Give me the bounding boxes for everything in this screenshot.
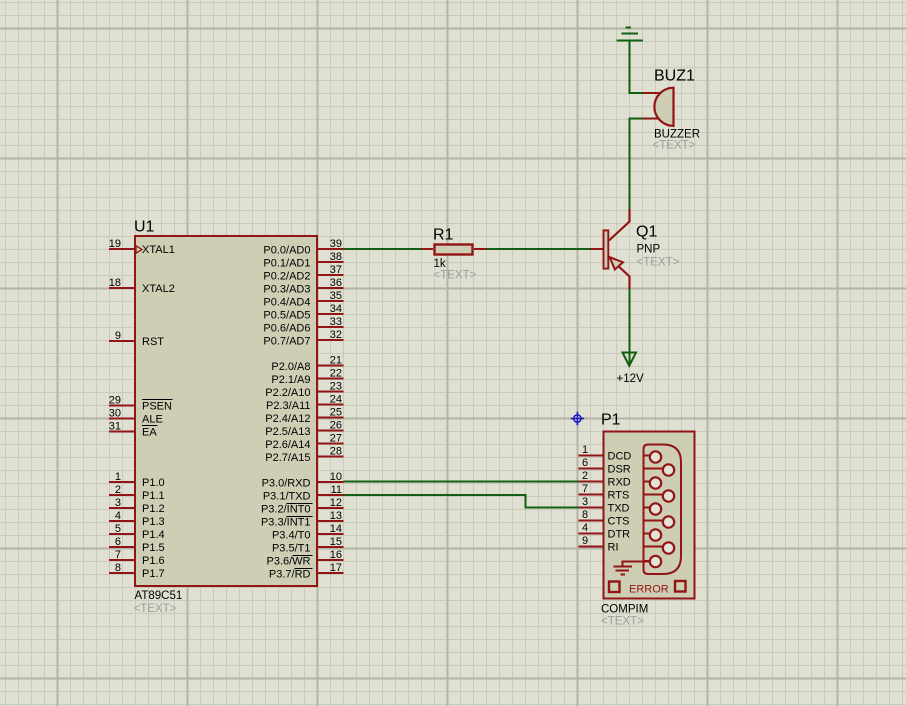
svg-text:P0.7/AD7: P0.7/AD7: [263, 336, 310, 348]
svg-text:ALE: ALE: [142, 414, 163, 426]
svg-text:P2.5/A13: P2.5/A13: [265, 426, 310, 438]
svg-text:3: 3: [582, 496, 588, 508]
svg-text:<TEXT>: <TEXT>: [637, 257, 680, 269]
svg-text:9: 9: [582, 535, 588, 547]
svg-text:P2.3/A11: P2.3/A11: [266, 400, 310, 412]
svg-text:P2.4/A12: P2.4/A12: [265, 413, 310, 425]
svg-text:BUZ1: BUZ1: [654, 68, 695, 85]
svg-text:R1: R1: [433, 227, 454, 244]
svg-text:RST: RST: [142, 336, 164, 348]
svg-text:P3.2/INT0: P3.2/INT0: [261, 504, 311, 516]
svg-text:P1.6: P1.6: [142, 555, 165, 567]
svg-text:7: 7: [582, 483, 588, 495]
svg-text:P1.2: P1.2: [142, 503, 165, 515]
svg-text:P1.5: P1.5: [142, 542, 165, 554]
svg-text:P3.7/RD: P3.7/RD: [269, 569, 311, 581]
svg-text:P0.2/AD2: P0.2/AD2: [263, 271, 310, 283]
svg-text:P2.2/A10: P2.2/A10: [265, 387, 310, 399]
svg-text:+12V: +12V: [617, 373, 645, 385]
svg-text:U1: U1: [134, 219, 155, 236]
svg-text:P2.0/A8: P2.0/A8: [271, 361, 310, 373]
svg-text:P0.6/AD6: P0.6/AD6: [263, 323, 310, 335]
svg-text:P1.3: P1.3: [142, 516, 165, 528]
svg-text:P3.6/WR: P3.6/WR: [266, 556, 310, 568]
svg-text:CTS: CTS: [608, 516, 630, 528]
svg-text:1: 1: [582, 444, 588, 456]
svg-text:P3.0/RXD: P3.0/RXD: [262, 478, 311, 490]
svg-text:P2.7/A15: P2.7/A15: [265, 452, 310, 464]
svg-text:XTAL1: XTAL1: [142, 244, 175, 256]
svg-text:P1.7: P1.7: [142, 568, 165, 580]
svg-text:<TEXT>: <TEXT>: [134, 603, 177, 615]
svg-text:RI: RI: [608, 542, 619, 554]
svg-text:4: 4: [582, 522, 588, 534]
svg-text:P0.5/AD5: P0.5/AD5: [263, 310, 310, 322]
svg-text:P2.6/A14: P2.6/A14: [265, 439, 310, 451]
svg-text:DTR: DTR: [608, 529, 631, 541]
svg-text:P1: P1: [601, 412, 621, 429]
svg-text:P2.1/A9: P2.1/A9: [271, 374, 310, 386]
svg-text:P3.5/T1: P3.5/T1: [272, 543, 311, 555]
svg-text:XTAL2: XTAL2: [142, 283, 175, 295]
svg-text:RTS: RTS: [608, 490, 630, 502]
svg-text:8: 8: [582, 509, 588, 521]
svg-text:P1.0: P1.0: [142, 477, 165, 489]
svg-text:TXD: TXD: [608, 503, 630, 515]
svg-text:DSR: DSR: [608, 464, 631, 476]
svg-text:P0.1/AD1: P0.1/AD1: [263, 258, 310, 270]
svg-text:ERROR: ERROR: [629, 584, 669, 596]
svg-text:PNP: PNP: [637, 244, 661, 256]
svg-text:P1.1: P1.1: [142, 490, 165, 502]
svg-text:P0.0/AD0: P0.0/AD0: [263, 245, 310, 257]
svg-text:P3.3/INT1: P3.3/INT1: [261, 517, 311, 529]
svg-text:COMPIM: COMPIM: [601, 604, 648, 616]
svg-text:<TEXT>: <TEXT>: [434, 270, 477, 282]
svg-text:RXD: RXD: [608, 477, 631, 489]
svg-text:Q1: Q1: [636, 224, 657, 241]
svg-text:<TEXT>: <TEXT>: [601, 616, 644, 628]
svg-text:P0.3/AD3: P0.3/AD3: [263, 284, 310, 296]
svg-text:PSEN: PSEN: [142, 401, 172, 413]
svg-text:1k: 1k: [434, 258, 446, 270]
svg-text:P3.4/T0: P3.4/T0: [272, 530, 311, 542]
svg-text:P0.4/AD4: P0.4/AD4: [263, 297, 310, 309]
svg-text:EA: EA: [142, 427, 157, 439]
svg-text:6: 6: [582, 457, 588, 469]
svg-text:AT89C51: AT89C51: [135, 590, 183, 602]
svg-text:DCD: DCD: [608, 451, 632, 463]
svg-text:P1.4: P1.4: [142, 529, 165, 541]
svg-text:<TEXT>: <TEXT>: [653, 140, 696, 152]
svg-text:P3.1/TXD: P3.1/TXD: [263, 491, 311, 503]
svg-text:2: 2: [582, 470, 588, 482]
